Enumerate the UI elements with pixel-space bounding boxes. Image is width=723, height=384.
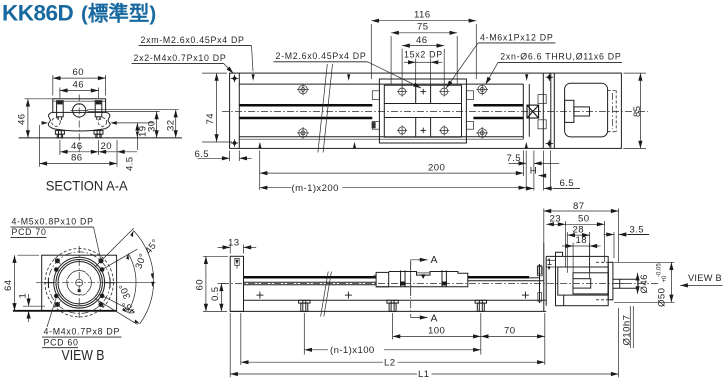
svg-text:(n-1)x100: (n-1)x100 (330, 345, 375, 356)
flange plate (545, 256, 547, 305)
svg-text:+0: +0 (662, 275, 668, 283)
centerlines (78, 246, 80, 319)
dim (n-1)x100 (303, 313, 305, 355)
main body outline (230, 73, 622, 148)
dim 7.5 (525, 151, 527, 191)
dim 4.5 (117, 151, 137, 153)
ball screw circle (73, 104, 86, 117)
dim 1 (23, 305, 45, 307)
motor hidden corner dashes (596, 261, 613, 263)
dimension 116 (371, 20, 476, 22)
gearbox inner rects (558, 267, 608, 295)
svg-text:15x2 DP: 15x2 DP (404, 50, 443, 60)
dim diam50 with tolerance (614, 261, 675, 263)
svg-text:Ø50: Ø50 (657, 288, 668, 307)
base mounting line (19, 137, 182, 139)
svg-text:VIEW B: VIEW B (62, 348, 105, 364)
svg-text:13: 13 (228, 238, 239, 249)
svg-text:46: 46 (71, 141, 82, 152)
right end face line (543, 243, 545, 311)
screw shaft lines right of carriage (468, 276, 529, 279)
screw shaft lines left of carriage (244, 281, 377, 283)
svg-text:6.5: 6.5 (560, 178, 575, 189)
svg-text:-0.05: -0.05 (657, 263, 663, 277)
svg-text:18: 18 (576, 235, 587, 246)
grease nipple symbol (235, 258, 239, 265)
carriage M6 holes (397, 87, 407, 97)
carriage divider lines (415, 85, 417, 103)
svg-text:4.5: 4.5 (125, 156, 136, 171)
carriage side tabs (372, 91, 379, 100)
svg-text:116: 116 (414, 10, 431, 21)
keyway mark (78, 289, 81, 292)
dim 19 (136, 123, 138, 150)
angle radial lines (95, 228, 134, 267)
foot 1 (299, 300, 310, 311)
rail top dark line (244, 276, 377, 279)
PCD70 bolt circle (48, 252, 110, 314)
svg-text:45°: 45° (143, 237, 161, 256)
motor end cap (608, 262, 613, 300)
dim 3.5 (613, 232, 615, 258)
dim 46 left vertical (27, 99, 29, 138)
svg-text:A: A (431, 254, 438, 266)
svg-text:(標準型): (標準型) (81, 2, 156, 26)
dim 6.5 right (550, 151, 552, 191)
rail side datum arrows (42, 121, 48, 125)
shaft lines (613, 278, 638, 280)
dim 23 (565, 221, 567, 267)
right screw (95, 101, 102, 117)
body hole crosshair left top (297, 84, 309, 96)
dim 87 (543, 209, 545, 244)
carriage center M2.6 plus marks (420, 89, 426, 95)
svg-text:64: 64 (3, 279, 14, 291)
dim 64 (18, 254, 40, 256)
motor body (556, 256, 609, 305)
motor plate screw star top (546, 73, 554, 81)
svg-text:7.5: 7.5 (507, 153, 522, 164)
angle arc outer (134, 231, 154, 324)
end-block screw star top (231, 75, 239, 83)
dim 200 (259, 151, 261, 191)
centerline of top view (222, 111, 648, 113)
bearing tab (537, 267, 542, 276)
svg-text:50: 50 (578, 214, 589, 225)
svg-text:3.5: 3.5 (630, 225, 645, 236)
bearing housing lines (528, 84, 530, 137)
base bottom line (244, 299, 547, 301)
left foot (55, 131, 64, 135)
left end plate line (238, 73, 240, 148)
svg-text:28: 28 (573, 224, 584, 235)
svg-text:60: 60 (73, 67, 84, 78)
svg-text:KK86D: KK86D (2, 1, 74, 26)
dim L2 (240, 313, 242, 365)
dark rail band upper (239, 104, 372, 107)
plus marks on horizontal (43, 278, 115, 288)
rail inner top line (239, 83, 523, 85)
svg-text:PCD 60: PCD 60 (44, 337, 79, 347)
angle arc inner (127, 254, 136, 313)
dim 46 top (59, 88, 61, 99)
body hole crosshair right bottom (476, 127, 488, 139)
body hole crosshair right top (476, 84, 488, 96)
section A-A marker lower (410, 262, 412, 318)
dim 74 left (202, 72, 227, 74)
M2.6 hole arrows on top edge (252, 74, 255, 81)
rail inner bottom lines (239, 136, 523, 138)
M5 bolts on PCD70 (55, 258, 104, 307)
motor shaft boss in plan (565, 100, 574, 122)
dim 28 (566, 232, 568, 273)
svg-text:32: 32 (165, 120, 176, 131)
dim (m-1)x200 (260, 187, 292, 189)
svg-text:VIEW B: VIEW B (688, 273, 722, 283)
dim L1 (229, 313, 231, 377)
dim diam10h7 (629, 306, 631, 348)
dim 30 (88, 111, 160, 113)
dim 70 (544, 313, 546, 365)
svg-text:100: 100 (428, 326, 445, 337)
svg-text:4-M4x0.7Px8 DP: 4-M4x0.7Px8 DP (44, 327, 121, 337)
carriage block (53, 99, 106, 113)
svg-text:30°: 30° (133, 252, 149, 271)
svg-text:46: 46 (73, 80, 84, 91)
body hole crosshair left bottom (297, 127, 309, 139)
dim 50 (604, 221, 606, 262)
svg-text:0.5: 0.5 (210, 286, 221, 301)
rail end vertical (522, 84, 524, 139)
svg-text:75: 75 (417, 22, 428, 33)
svg-text:30: 30 (146, 121, 157, 132)
shaft circles (67, 271, 91, 295)
svg-text:87: 87 (573, 201, 584, 212)
left screw (57, 101, 64, 117)
bearing side tabs (538, 95, 546, 104)
dimension 46 (402, 45, 444, 47)
flange top step (546, 252, 562, 256)
side centerline (222, 282, 659, 284)
motor hidden connector dashed (608, 89, 617, 91)
dark rail band lower (239, 117, 372, 120)
svg-text:23: 23 (550, 214, 561, 225)
dimension 75 (391, 32, 457, 34)
svg-text:20: 20 (101, 141, 112, 152)
carriage side profile (376, 272, 389, 286)
svg-text:2xn-Ø6.6 THRU,Ø11x6 DP: 2xn-Ø6.6 THRU,Ø11x6 DP (500, 52, 621, 62)
outer dashed circle (45, 249, 113, 317)
foot 3 (475, 300, 486, 311)
dim 32 (88, 109, 179, 111)
svg-text:L2: L2 (384, 357, 395, 368)
dim 60 top (52, 75, 54, 96)
svg-text:Ø46: Ø46 (639, 274, 650, 293)
ext lines (370, 24, 372, 79)
svg-text:Ø10h7: Ø10h7 (622, 315, 633, 346)
M4 bolts on PCD60 (54, 267, 104, 298)
svg-text:46: 46 (17, 114, 28, 125)
rail cross-section outline (48, 112, 110, 131)
svg-text:4-M5x0.8Px10 DP: 4-M5x0.8Px10 DP (12, 217, 94, 227)
flange sensor tabs (538, 265, 542, 274)
carriage inner rect (384, 85, 461, 137)
dim 46 / 20 bottom (59, 140, 61, 155)
motor plate screw star bottom (546, 140, 554, 148)
svg-text:1: 1 (547, 257, 553, 268)
foot 2 (387, 300, 398, 311)
side break lines (321, 272, 329, 317)
section A-A marker upper (411, 260, 428, 296)
left end block (230, 256, 243, 311)
arc arrowheads (130, 231, 133, 238)
svg-text:A: A (431, 313, 438, 325)
svg-text:30°: 30° (117, 282, 133, 301)
svg-text:PCD 70: PCD 70 (12, 227, 47, 237)
flange bottom thick line (13, 310, 117, 312)
dim 18 (572, 243, 574, 279)
svg-text:1: 1 (18, 293, 29, 299)
svg-text:200: 200 (428, 162, 445, 173)
break lines top view (318, 64, 327, 153)
dim 86 (38, 125, 40, 167)
end-block screw star bottom (231, 139, 239, 147)
svg-text:46: 46 (416, 35, 427, 46)
dim 0.5 (218, 282, 227, 284)
svg-text:2xm-M2.6x0.45Px4 DP: 2xm-M2.6x0.45Px4 DP (141, 35, 245, 45)
flange square (42, 255, 117, 311)
svg-text:60: 60 (195, 279, 206, 290)
dim 60 side (203, 255, 228, 257)
flange recess lines (546, 259, 555, 261)
raceway groove dashed arcs (52, 118, 61, 127)
floor line (230, 310, 546, 312)
svg-text:H: H (530, 166, 537, 177)
hidden hole plus marks (256, 292, 263, 299)
carriage center band (384, 103, 461, 105)
svg-text:SECTION A-A: SECTION A-A (46, 178, 129, 194)
svg-text:L1: L1 (418, 369, 429, 380)
dim 100 (392, 313, 394, 340)
block top line extension left (25, 98, 53, 100)
carriage outer rect (379, 79, 466, 143)
dim diam46 (637, 273, 639, 294)
svg-text:70: 70 (504, 326, 515, 337)
dim 6.5 left (229, 151, 231, 162)
motor housing rounded body (565, 83, 608, 137)
pilot circles (54, 257, 105, 308)
dim H (543, 151, 545, 191)
svg-text:2x2-M4x0.7Px10 DP: 2x2-M4x0.7Px10 DP (134, 53, 227, 63)
dim 13 (229, 245, 231, 254)
svg-text:4-M6x1Px12 DP: 4-M6x1Px12 DP (480, 33, 553, 43)
M2.6 hole arrows on bottom edge (258, 142, 261, 149)
svg-text:(m-1)x200: (m-1)x200 (292, 183, 339, 194)
svg-text:74: 74 (205, 113, 216, 125)
coupling bearing box with X (527, 105, 539, 118)
svg-text:86: 86 (71, 153, 82, 164)
right foot (94, 131, 103, 135)
svg-text:85: 85 (632, 106, 643, 117)
svg-text:2-M2.6x0.45Px4 DP: 2-M2.6x0.45Px4 DP (276, 51, 367, 61)
